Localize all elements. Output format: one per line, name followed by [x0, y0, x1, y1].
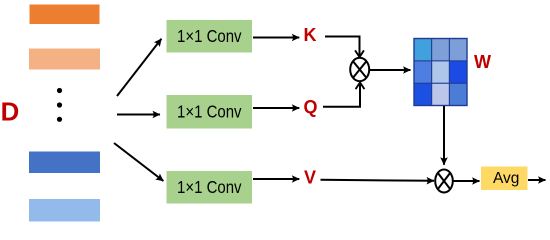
Avg box [481, 167, 528, 191]
svg-text:1×1 Conv: 1×1 Conv [177, 26, 242, 46]
arrow D to conv2 [117, 114, 160, 116]
wire K elbow to multiply node 1 [325, 37, 360, 58]
svg-text:W: W [474, 52, 491, 72]
svg-text:D: D [1, 98, 20, 126]
svg-text:K: K [304, 25, 317, 45]
multiply node 2 [435, 170, 453, 193]
ellipsis dot 1 [57, 88, 62, 93]
wire V to multiply node 2 [321, 180, 435, 181]
feature bar 1 (dark orange) [30, 5, 100, 25]
arrow conv2 to Q [253, 107, 299, 109]
feature bar 2 (light orange) [29, 49, 100, 70]
conv box 1 [167, 20, 253, 53]
ellipsis dot 2 [57, 102, 62, 107]
svg-text:V: V [304, 168, 316, 188]
feature bar 3 (dark blue) [29, 152, 100, 174]
svg-text:1×1 Conv: 1×1 Conv [177, 177, 242, 197]
arrow conv1 to K [253, 37, 299, 39]
svg-text:1×1 Conv: 1×1 Conv [177, 102, 242, 122]
arrow D to conv3 [114, 143, 163, 181]
wire Q elbow to multiply node 1 [323, 83, 360, 107]
arrow D to conv1 [117, 39, 161, 96]
svg-text:Q: Q [303, 97, 317, 117]
feature bar 4 (light blue) [29, 199, 100, 222]
multiply node 1 [350, 58, 369, 81]
arrow Avg out [528, 179, 546, 181]
svg-text:Avg: Avg [493, 170, 519, 187]
ellipsis dot 3 [57, 117, 62, 122]
conv box 2 [167, 95, 253, 129]
arrow multiply node 2 to Avg [453, 180, 480, 182]
matrix W cells [414, 39, 467, 106]
wire matrix W down to multiply node 2 [443, 106, 445, 165]
arrow conv3 to V [253, 178, 299, 180]
conv box 3 [167, 171, 253, 204]
arrow multiply node 1 to matrix W [370, 69, 411, 71]
